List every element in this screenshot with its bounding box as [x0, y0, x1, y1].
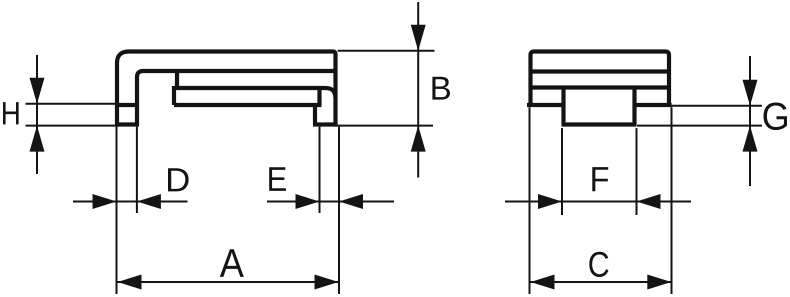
dimension H: lower extension line — [26, 125, 116, 127]
left view: right terminal foot bottom — [313, 122, 338, 126]
left view: left terminal foot bottom — [115, 122, 139, 126]
dimension C: horizontal dimension line — [531, 281, 672, 283]
extension line below right view left edge — [529, 107, 531, 294]
left view: winding bottom line — [174, 103, 322, 107]
right view: center foot left vertical — [561, 88, 565, 125]
dimension D: right-pointing arrowhead — [93, 194, 117, 209]
right view: bottom edge left segment — [527, 103, 562, 107]
dimension G: label G — [764, 102, 788, 130]
dimension G: lower extension line — [637, 125, 762, 127]
dimension H: vertical dimension line — [36, 55, 38, 174]
dimension H: down arrowhead — [30, 78, 45, 104]
dimension D: label D — [168, 168, 189, 191]
right view: bottom edge right segment — [637, 103, 672, 107]
dimension A: horizontal dimension line — [118, 281, 339, 283]
dimension G: upper extension line — [671, 105, 762, 107]
right view: center foot right vertical — [632, 88, 636, 125]
dimension A: right-pointing arrowhead — [315, 275, 339, 290]
dimension H: upper extension line — [26, 103, 116, 105]
right view: center foot bottom — [562, 122, 637, 126]
dimension H: label H — [3, 102, 19, 124]
dimension D: horizontal dimension line — [73, 201, 188, 203]
extension line below right foot inner edge — [319, 127, 321, 213]
extension line below right view right edge — [671, 107, 673, 294]
left view: inner wall and lid underside line — [137, 71, 336, 126]
extension line below right foot outer edge — [338, 127, 340, 294]
dimension A: label A — [220, 249, 244, 277]
left view: outer body outline — [117, 52, 336, 127]
dimension H: up arrowhead — [30, 126, 45, 152]
dimension F: label F — [592, 167, 608, 191]
left view: upper step vertical — [175, 72, 179, 88]
dimension D: left-pointing arrowhead — [137, 194, 161, 209]
extension line below left foot inner edge — [136, 127, 138, 213]
extension line below left foot outer edge — [116, 127, 118, 294]
left view: left terminal foot notch bar — [116, 103, 137, 107]
right view: lower layer line — [531, 85, 670, 89]
dimension E: label E — [269, 167, 286, 191]
dimension F: right-pointing arrowhead — [538, 194, 562, 209]
left view: right terminal inner vertical — [315, 86, 320, 125]
dimension E: horizontal dimension line — [267, 201, 394, 203]
dimension B: label B — [432, 77, 450, 100]
dimension E: left-pointing arrowhead — [339, 194, 363, 209]
dimension B: down arrowhead — [411, 25, 426, 51]
extension line below right view foot right edge — [636, 128, 638, 215]
dimension C: label C — [589, 252, 608, 277]
right view: upper layer line — [531, 69, 670, 73]
dimension B: up arrowhead — [411, 126, 426, 152]
dimension F: horizontal dimension line — [505, 201, 691, 203]
dimension C: left-pointing arrowhead — [531, 275, 555, 290]
right view: outer rectangle — [531, 52, 670, 106]
dimension E: right-pointing arrowhead — [296, 194, 320, 209]
dimension G: down arrowhead — [743, 80, 758, 106]
dimension B: vertical dimension line — [417, 2, 419, 178]
dimension A: left-pointing arrowhead — [118, 275, 142, 290]
dimension B: lower extension line — [338, 125, 433, 127]
dimension C: right-pointing arrowhead — [647, 275, 671, 290]
left view: middle winding top line with right corner radius — [174, 88, 336, 98]
dimension G: up arrowhead — [743, 126, 758, 152]
dimension B: upper extension line — [338, 50, 435, 52]
left view: winding left vertical — [172, 86, 176, 105]
dimension F: left-pointing arrowhead — [637, 194, 661, 209]
dimension G: vertical dimension line — [749, 56, 751, 186]
extension line below right view foot left edge — [561, 128, 563, 215]
